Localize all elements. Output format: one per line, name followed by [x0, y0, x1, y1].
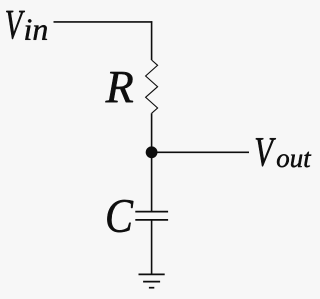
resistor R	[146, 60, 158, 113]
wire node to Vout label	[152, 151, 249, 153]
junction node Vout	[146, 146, 158, 158]
capacitor C	[135, 212, 168, 220]
node Vin label	[6, 11, 47, 40]
node Vout label	[256, 138, 311, 167]
label R	[105, 72, 133, 102]
wire node to capacitor	[151, 152, 153, 211]
wire capacitor to ground	[151, 220, 153, 275]
label C	[107, 200, 133, 232]
wire resistor to node	[151, 113, 153, 152]
ground	[139, 274, 165, 287]
wire corner down to resistor	[151, 21, 153, 60]
wire Vin to corner	[54, 21, 153, 23]
